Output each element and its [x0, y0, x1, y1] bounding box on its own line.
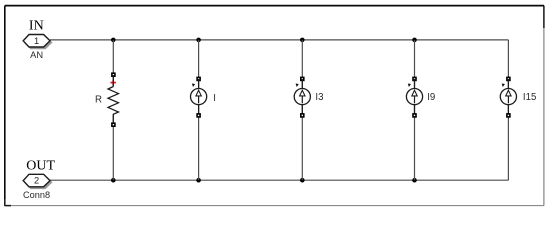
port OUT (pin 2, net Conn8): [23, 159, 55, 201]
junction bottom 1: [111, 178, 116, 183]
junction top 2: [196, 38, 201, 43]
wire I top: [198, 40, 200, 89]
current source I3: [294, 77, 323, 118]
wire I3 bottom: [301, 105, 303, 181]
wire bottom rail: [50, 179, 508, 181]
junction bottom 3: [300, 178, 305, 183]
wire R bottom: [112, 114, 114, 180]
wire I bottom: [198, 105, 200, 181]
wire I15 bottom: [507, 105, 509, 181]
wire top rail: [50, 39, 508, 41]
junction bottom 2: [196, 178, 201, 183]
svg-text:I3: I3: [315, 92, 323, 103]
svg-text:I15: I15: [523, 92, 536, 103]
wire I15 top: [507, 40, 509, 89]
wire R top: [112, 40, 114, 87]
svg-text:I: I: [213, 93, 216, 104]
svg-text:Conn8: Conn8: [23, 190, 50, 200]
junction bottom 4: [412, 178, 417, 183]
current source I9: [406, 77, 435, 118]
port IN (pin 1, net AN): [23, 19, 52, 61]
wire I9 top: [414, 40, 416, 89]
svg-text:I9: I9: [427, 92, 435, 103]
svg-text:1: 1: [34, 36, 39, 46]
wire I9 bottom: [414, 105, 416, 181]
svg-text:OUT: OUT: [26, 159, 55, 174]
junction top 4: [412, 38, 417, 43]
junction top 3: [300, 38, 305, 43]
svg-text:IN: IN: [29, 19, 44, 34]
svg-text:2: 2: [34, 176, 39, 186]
current source I15: [500, 77, 536, 118]
wire I3 top: [301, 40, 303, 89]
junction top 1: [111, 38, 116, 43]
current source I: [191, 77, 216, 118]
svg-text:AN: AN: [30, 50, 43, 60]
svg-text:R: R: [95, 95, 102, 106]
resistor R: [95, 72, 119, 127]
